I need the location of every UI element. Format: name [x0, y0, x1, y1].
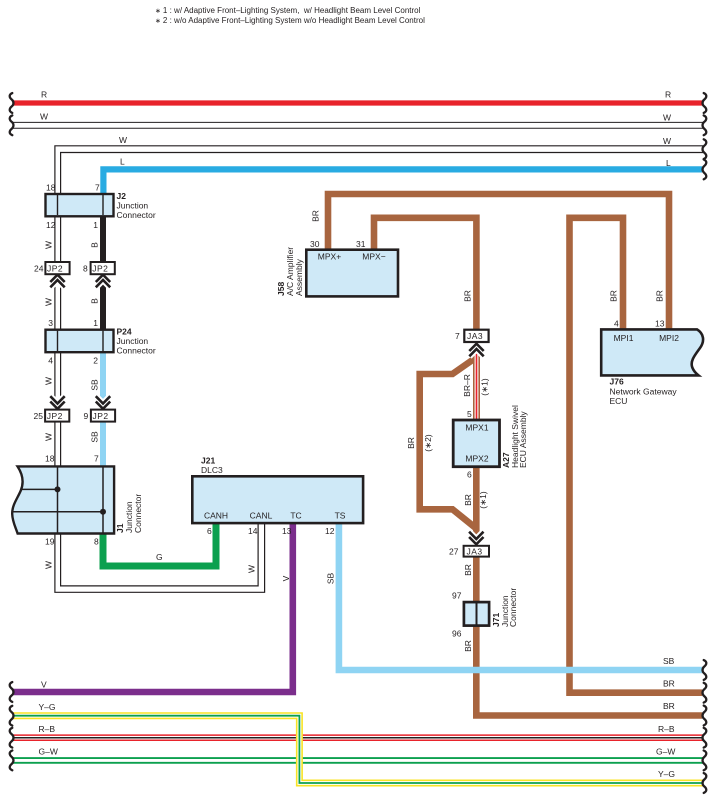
svg-text:Connector: Connector	[508, 588, 518, 627]
svg-text:CANH: CANH	[204, 511, 228, 521]
svg-text:V: V	[41, 680, 47, 690]
wire W loop (W): J21 CANL pin 14 up left column to top, to right edge	[44, 135, 707, 592]
connector arrow into JP2 (25)	[50, 396, 64, 409]
svg-text:MPX1: MPX1	[465, 423, 488, 433]
svg-text:∗ 1 : w/ Adaptive Front–Lighti: ∗ 1 : w/ Adaptive Front–Lighting System,…	[155, 6, 421, 15]
svg-text:4: 4	[614, 319, 619, 329]
svg-text:(∗2): (∗2)	[423, 434, 433, 452]
svg-text:G–W: G–W	[39, 747, 58, 757]
svg-text:96: 96	[452, 629, 462, 639]
svg-text:G–W: G–W	[656, 747, 675, 757]
svg-text:3: 3	[48, 318, 53, 328]
junction connector J1	[12, 454, 143, 547]
svg-text:J76: J76	[610, 377, 624, 387]
svg-text:BR: BR	[406, 437, 416, 449]
junction connector P24	[46, 318, 156, 366]
svg-text:W: W	[40, 112, 48, 122]
svg-text:MPX+: MPX+	[318, 252, 341, 262]
svg-text:BR: BR	[311, 210, 321, 222]
svg-text:BR: BR	[463, 290, 473, 302]
connector JP2 (9)	[84, 410, 116, 422]
wire BR (*2): bypass around A27	[406, 357, 476, 528]
svg-text:BR: BR	[609, 290, 619, 302]
svg-text:J21: J21	[201, 456, 215, 466]
svg-text:SB: SB	[90, 431, 100, 443]
junction connector J2	[46, 183, 156, 231]
svg-text:Junction: Junction	[117, 201, 149, 211]
wire L bus (L): right edge to J2 pin 7	[103, 157, 706, 200]
svg-text:7: 7	[95, 183, 100, 193]
svg-text:W: W	[119, 135, 127, 145]
svg-text:SB: SB	[90, 379, 100, 391]
svg-text:27: 27	[449, 547, 459, 557]
svg-text:W: W	[44, 433, 54, 441]
connector JP2 (24)	[34, 262, 70, 274]
svg-text:BR: BR	[663, 679, 675, 689]
svg-text:MPX−: MPX−	[362, 252, 385, 262]
svg-text:18: 18	[46, 183, 56, 193]
wire R-B bus, full width	[10, 724, 707, 748]
svg-text:1: 1	[93, 220, 98, 230]
svg-text:R–B: R–B	[658, 724, 675, 734]
svg-text:6: 6	[467, 470, 472, 480]
svg-text:W: W	[44, 298, 54, 306]
wire SB: P24 pin 2 to J1 pin 7	[90, 348, 104, 470]
ECU J76 Network Gateway	[601, 319, 703, 407]
svg-text:JA3: JA3	[467, 331, 483, 341]
svg-text:BR: BR	[463, 564, 473, 576]
svg-text:12: 12	[46, 220, 56, 230]
connector JP2 (8)	[83, 262, 115, 274]
svg-text:Junction: Junction	[117, 336, 149, 346]
svg-text:BR: BR	[655, 290, 665, 302]
svg-text:BR: BR	[663, 701, 675, 711]
svg-text:L: L	[120, 157, 125, 167]
connector arrow into JA3 (27)	[469, 532, 483, 545]
svg-text:ECU: ECU	[610, 396, 628, 406]
svg-text:1: 1	[93, 318, 98, 328]
svg-text:W: W	[44, 561, 54, 569]
wire Y-G: left edge down crossover to right edge	[10, 702, 707, 793]
connector JA3 (7)	[455, 330, 489, 342]
ECU A27 Headlight Swivel	[453, 405, 528, 479]
svg-text:24: 24	[34, 264, 44, 274]
svg-text:(∗1): (∗1)	[478, 491, 488, 509]
svg-text:30: 30	[310, 239, 320, 249]
svg-text:TC: TC	[290, 511, 301, 521]
svg-text:97: 97	[452, 591, 462, 601]
junction connector J71	[452, 588, 518, 639]
svg-text:13: 13	[655, 319, 665, 329]
wire G: J1 pin 8 to J21 CANH pin 6	[103, 520, 216, 566]
wire B: J2 pin 1 to P24 pin 1	[90, 205, 104, 333]
svg-text:P24: P24	[117, 327, 132, 337]
svg-text:MPI1: MPI1	[614, 333, 634, 343]
svg-text:V: V	[281, 575, 291, 581]
wire W bus (W), full width	[10, 112, 707, 136]
connector arrow into JP2 (24)	[50, 275, 64, 288]
svg-text:G: G	[156, 552, 163, 562]
svg-text:JP2: JP2	[93, 411, 109, 421]
ECU J58 A/C Amplifier Assembly	[276, 239, 398, 296]
svg-text:B: B	[90, 242, 100, 248]
svg-text:(∗1): (∗1)	[480, 378, 490, 396]
svg-text:SB: SB	[663, 656, 675, 666]
svg-text:TS: TS	[335, 511, 346, 521]
svg-text:JP2: JP2	[92, 264, 108, 274]
svg-text:7: 7	[94, 454, 99, 464]
svg-text:Y–G: Y–G	[39, 702, 56, 712]
svg-text:W: W	[663, 113, 671, 123]
wire BR: J58 MPX+ pin 30 to J76 MPI2 pin 13	[311, 194, 670, 333]
svg-text:JA3: JA3	[467, 547, 483, 557]
svg-text:31: 31	[356, 239, 366, 249]
wire BR-R (*1): JA3 pin 7 to A27 MPX1 pin 5	[462, 338, 490, 422]
svg-text:4: 4	[48, 356, 53, 366]
note *2: w/o Adaptive Front-Lighting System	[155, 16, 425, 25]
svg-text:BR–R: BR–R	[462, 374, 472, 397]
svg-text:R: R	[665, 90, 671, 100]
connector JA3 (27)	[449, 546, 489, 557]
svg-text:9: 9	[84, 411, 89, 421]
svg-text:7: 7	[455, 331, 460, 341]
connector arrow into JP2 (9)	[96, 396, 110, 409]
connector arrow into JP2 (8)	[96, 275, 110, 288]
svg-text:6: 6	[207, 526, 212, 536]
svg-text:R–B: R–B	[39, 724, 56, 734]
svg-text:Assembly: Assembly	[294, 258, 304, 296]
connector JP2 (25)	[34, 410, 70, 422]
wire SB: J21 TS pin 12 to right edge	[326, 520, 707, 680]
svg-text:Network Gateway: Network Gateway	[610, 387, 678, 397]
svg-text:19: 19	[45, 537, 55, 547]
svg-text:BR: BR	[463, 640, 473, 652]
svg-text:W: W	[663, 136, 671, 146]
svg-text:CANL: CANL	[250, 511, 273, 521]
svg-text:DLC3: DLC3	[201, 465, 223, 475]
svg-text:BR: BR	[463, 494, 473, 506]
svg-text:14: 14	[248, 526, 258, 536]
svg-text:Y–G: Y–G	[658, 769, 675, 779]
svg-text:Connector: Connector	[133, 494, 143, 533]
wire R bus (R), full width	[10, 90, 707, 113]
svg-text:Connector: Connector	[117, 346, 156, 356]
svg-text:MPX2: MPX2	[465, 454, 488, 464]
svg-text:B: B	[90, 298, 100, 304]
svg-text:W: W	[44, 241, 54, 249]
wire BR: J76 MPI1 pin 4 up over to right edge (bottom)	[570, 218, 707, 703]
svg-text:W: W	[247, 565, 257, 573]
svg-text:13: 13	[282, 526, 292, 536]
svg-text:ECU Assembly: ECU Assembly	[518, 411, 528, 468]
svg-text:Connector: Connector	[117, 210, 156, 220]
svg-text:5: 5	[467, 409, 472, 419]
svg-text:JP2: JP2	[47, 264, 63, 274]
svg-text:8: 8	[83, 264, 88, 274]
svg-text:R: R	[41, 90, 47, 100]
wire V: J21 TC pin 13 to left edge	[10, 520, 293, 702]
svg-text:L: L	[666, 158, 671, 168]
wire BR: J58 MPX- pin 31 to JA3 pin 7	[374, 218, 476, 332]
svg-text:∗ 2 : w/o Adaptive Front–Light: ∗ 2 : w/o Adaptive Front–Lighting System…	[155, 16, 425, 25]
wire BR: A27 MPX2 pin 6 to JA3 27 to J71 to right edge	[463, 464, 706, 725]
wire G-W bus, full width	[10, 747, 707, 771]
svg-text:SB: SB	[326, 573, 336, 585]
svg-text:J2: J2	[117, 191, 127, 201]
svg-text:25: 25	[34, 411, 44, 421]
svg-text:18: 18	[45, 454, 55, 464]
svg-text:2: 2	[93, 356, 98, 366]
svg-text:12: 12	[325, 526, 335, 536]
svg-text:JP2: JP2	[47, 411, 63, 421]
svg-text:MPI2: MPI2	[659, 333, 679, 343]
connector arrow into JA3 (7)	[469, 344, 483, 357]
connector J21 DLC3	[192, 456, 363, 537]
svg-text:W: W	[44, 377, 54, 385]
note *1: w/ Adaptive Front-Lighting System	[155, 6, 421, 15]
svg-text:8: 8	[94, 537, 99, 547]
